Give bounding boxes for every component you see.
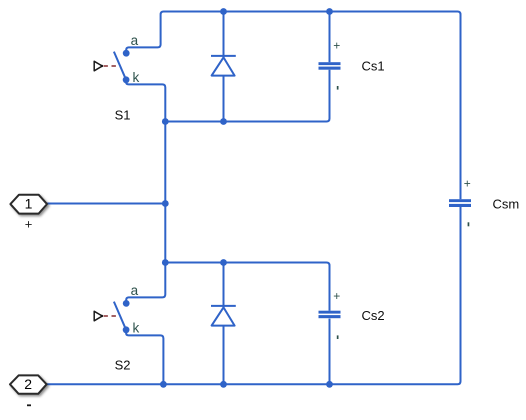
capacitor Csm plates <box>449 199 471 207</box>
wire: middle node row down to S2 a-port <box>126 263 165 304</box>
junction node: top rail / diode D1 <box>220 8 227 15</box>
switch S1 control triangle <box>94 61 102 71</box>
capacitor Cs2 minus label <box>337 335 339 339</box>
svg-text:k: k <box>133 70 140 85</box>
wire: S1 a-port to top rail, top rail, Csm top lead <box>126 12 460 200</box>
svg-text:S1: S1 <box>115 108 131 123</box>
junction node: S1 row / mid column <box>162 118 169 125</box>
capacitor Cs1 minus label <box>337 86 339 90</box>
junction node: bottom rail / S2 k column <box>160 381 167 388</box>
svg-text:+: + <box>464 177 471 191</box>
diode D1 top lead wire <box>223 12 225 58</box>
svg-text:k: k <box>133 321 140 336</box>
capacitor Cs2 plates <box>319 311 341 319</box>
diode D1 cathode bar <box>211 55 236 57</box>
port 1 hexagon <box>10 195 47 214</box>
wire: Cs2 bottom lead to bottom rail <box>329 319 331 385</box>
switch S2 lever <box>114 302 126 330</box>
diode D2 top lead wire <box>223 263 225 308</box>
junction node: middle row / mid column <box>162 259 169 266</box>
switch S2 k-port dot <box>123 326 130 333</box>
wire: port 1 to mid column <box>47 203 165 205</box>
diode D2 bottom lead wire <box>223 326 225 385</box>
wire: S1 bottom row to Cs1 bottom <box>165 70 329 122</box>
diode D1 bottom lead wire <box>223 76 225 122</box>
svg-text:+: + <box>333 39 340 53</box>
switch S1 control dashed line <box>104 65 120 67</box>
svg-text:Csm: Csm <box>493 197 520 212</box>
diode D2 triangle <box>212 307 235 325</box>
junction node: middle row / diode D2 <box>220 259 227 266</box>
svg-text:S2: S2 <box>115 358 131 373</box>
switch S2 control dashed line <box>104 315 120 317</box>
svg-text:a: a <box>131 33 139 48</box>
port 2 minus label <box>27 404 31 406</box>
svg-text:Cs1: Cs1 <box>362 59 385 74</box>
svg-text:+: + <box>333 289 340 303</box>
switch S1 control triangle apex dot <box>101 65 103 67</box>
capacitor Cs1 plates <box>319 62 341 69</box>
diode D1 triangle <box>212 57 235 75</box>
svg-text:+: + <box>25 216 33 231</box>
junction node: port 1 / mid column <box>162 200 169 207</box>
port 2 hexagon <box>10 375 47 393</box>
wire: middle node row to Cs2 top <box>165 263 329 311</box>
junction node: S1 row / diode D1 <box>220 118 227 125</box>
switch S1 lever <box>114 52 126 80</box>
wire: Csm bottom lead and bottom rail to port 2 <box>47 207 461 384</box>
capacitor Csm minus label <box>468 222 470 226</box>
junction node: bottom rail / diode D2 <box>220 381 227 388</box>
wire: S2 k-port down to bottom rail <box>126 330 163 385</box>
wire: Cs1 top lead from top rail <box>329 12 331 63</box>
switch S2 a-port dot <box>123 300 130 307</box>
svg-text:2: 2 <box>24 376 32 392</box>
switch S2 control triangle apex dot <box>101 315 103 317</box>
junction node: top rail / Cs1 <box>326 8 333 15</box>
switch S1 k-port dot <box>123 76 130 83</box>
svg-text:1: 1 <box>25 196 33 212</box>
switch S1 a-port dot <box>123 50 130 57</box>
svg-text:Cs2: Cs2 <box>362 308 385 323</box>
switch S2 control triangle <box>94 311 102 321</box>
wire: S1 k-port down mid column to middle node row <box>126 80 165 263</box>
svg-text:a: a <box>131 283 139 298</box>
diode D2 cathode bar <box>211 305 236 307</box>
junction node: bottom rail / Cs2 <box>326 381 333 388</box>
